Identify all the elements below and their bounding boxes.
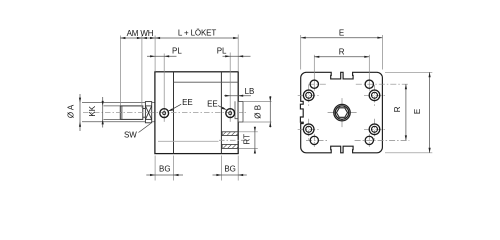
svg-text:L + LÖKET: L + LÖKET xyxy=(178,29,216,38)
dimension BG right xyxy=(221,156,238,181)
node counterbored hole double TL xyxy=(303,90,314,101)
wire: main piston-rod centerline xyxy=(83,111,246,113)
wire: rod neck between thread and hex xyxy=(143,108,146,110)
dimension E top xyxy=(301,35,383,70)
node thread KK block xyxy=(120,106,143,120)
node thread hole single TR xyxy=(365,80,373,88)
wire: crosshair single TL xyxy=(308,83,328,85)
dimension PL right xyxy=(223,55,251,57)
wire: crosshair double TL xyxy=(298,94,320,96)
svg-text:E: E xyxy=(413,109,422,114)
dimension KK xyxy=(103,97,121,128)
wire: port-EE-right centerline / PL+LB extension xyxy=(229,53,231,122)
node cylinder body (side view) xyxy=(155,72,238,154)
node counterbored hole double BR xyxy=(369,124,380,135)
svg-text:LB: LB xyxy=(245,87,255,96)
svg-text:EE: EE xyxy=(207,100,217,109)
node cylinder body front face with T-slots xyxy=(300,72,382,153)
node counterbored hole double BL xyxy=(303,124,314,135)
node thread hole single TL xyxy=(310,80,318,88)
svg-text:RT: RT xyxy=(243,134,252,145)
wire: port-EE-left centerline / PL extension xyxy=(163,54,165,122)
node centering boss dia-B xyxy=(238,102,243,123)
svg-text:Ø A: Ø A xyxy=(67,104,76,118)
svg-text:KK: KK xyxy=(88,105,97,116)
node hex wrench flats SW block xyxy=(145,102,151,123)
wire: inner step at right end xyxy=(235,101,238,119)
svg-text:SW: SW xyxy=(124,131,137,140)
node counterbored hole double TR xyxy=(369,90,380,101)
wire: crosshair single TR xyxy=(356,83,410,85)
wire: extension line body right edge (L / PL / LB) xyxy=(237,35,239,72)
wire: mounting-thread centerline (lower, right end) xyxy=(158,140,219,142)
dimension E right xyxy=(385,72,432,153)
wire: center crosshair xyxy=(328,112,357,114)
svg-text:R: R xyxy=(339,48,345,57)
port EE left xyxy=(160,109,169,118)
node rod outline / dia-A extension lines xyxy=(82,102,155,104)
wire: right end-cap line xyxy=(220,72,222,154)
wire: crosshair double BR xyxy=(364,128,386,130)
wire: inner top line of body xyxy=(174,81,239,83)
dimension dia-A xyxy=(79,94,81,131)
wire: extension line thread left (AM) xyxy=(119,36,121,106)
svg-text:Ø B: Ø B xyxy=(253,105,262,119)
svg-text:PL: PL xyxy=(217,47,227,56)
wire: extension line thread right (AM/WH) xyxy=(141,36,143,108)
svg-text:E: E xyxy=(339,29,344,38)
dimension PL left xyxy=(147,55,177,57)
port EE right xyxy=(226,109,235,118)
svg-text:AM: AM xyxy=(127,29,139,38)
dimension R top xyxy=(314,56,369,58)
dimension R right xyxy=(405,84,407,140)
wire: crosshair single BL xyxy=(306,139,329,141)
svg-text:PL: PL xyxy=(172,47,182,56)
dimension LB xyxy=(224,95,251,97)
dimension BG left xyxy=(155,156,173,181)
svg-text:BG: BG xyxy=(159,165,171,174)
wire: crosshair double BL xyxy=(298,128,320,130)
dimension chain AM / WH / L+LOKET xyxy=(120,37,238,39)
svg-text:BG: BG xyxy=(224,165,236,174)
node thread hole single BL xyxy=(310,136,318,144)
wire: left end-cap line xyxy=(173,72,175,154)
node mounting thread RT (hatched section) xyxy=(222,132,238,149)
dimension dia-B xyxy=(243,102,272,123)
node thread hole single BR xyxy=(365,136,373,144)
wire: extension line body left edge (WH / L) xyxy=(154,36,156,72)
dimension RT xyxy=(239,132,258,149)
svg-text:WH: WH xyxy=(140,29,153,38)
svg-text:EE: EE xyxy=(182,98,192,107)
svg-text:R: R xyxy=(393,106,402,112)
wire: crosshair double TR xyxy=(364,94,386,96)
wire: crosshair single BR xyxy=(355,139,410,141)
node piston rod with hex socket (center) xyxy=(334,104,350,120)
